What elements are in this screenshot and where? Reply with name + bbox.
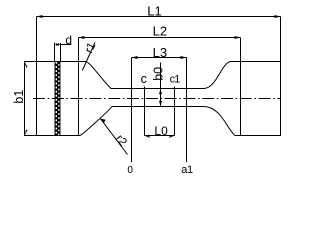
svg-text:b0: b0 [151,67,165,81]
svg-text:b1: b1 [12,90,26,104]
svg-text:0: 0 [127,165,133,176]
svg-text:c1: c1 [170,73,181,85]
svg-text:c: c [141,72,147,86]
svg-text:a1: a1 [181,164,193,176]
svg-text:L2: L2 [153,23,167,38]
svg-text:L1: L1 [147,4,161,19]
svg-text:L0: L0 [154,124,168,138]
svg-text:d: d [65,33,72,47]
svg-text:L3: L3 [153,45,167,60]
